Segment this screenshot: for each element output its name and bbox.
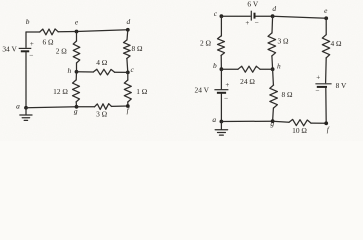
wire 12-ohm to node g (75, 102, 77, 107)
resistor 10 ohm (horizontal) (289, 119, 311, 125)
resistor 4 ohm (vertical, right circuit) (322, 35, 329, 58)
resistor 8 ohm (vertical, left circuit) (124, 40, 131, 59)
resistor 2 ohm (vertical, left circuit) (73, 41, 80, 63)
wire 1-ohm to node f (127, 102, 129, 106)
wire 8-ohm to node g (right circuit) (272, 108, 275, 121)
node g (right circuit) (271, 119, 275, 123)
wire d to 3-ohm (right circuit) (271, 16, 274, 33)
node f (126, 104, 130, 108)
wire g to 3-ohm (77, 106, 95, 108)
resistor 1 ohm (vertical) (124, 80, 131, 102)
node g (75, 105, 79, 109)
wire d to 8-ohm (126, 30, 129, 40)
wire node e to node d (top rail) (77, 30, 128, 32)
resistor 3 ohm (vertical, right circuit) (268, 33, 276, 56)
resistor 12 ohm (vertical) (73, 80, 80, 102)
wire c to 2-ohm (right circuit) (220, 16, 222, 36)
resistor 6 ohm (horizontal, top-left) (40, 29, 59, 35)
wire b down to 34V battery (25, 32, 27, 47)
node h (75, 70, 79, 74)
battery 34 V short plate (-) (21, 50, 29, 52)
wire g to 10-ohm (273, 121, 289, 122)
battery 24 V short plate (217, 92, 226, 94)
resistor 8 ohm (vertical, right circuit) (270, 85, 278, 108)
node f (right circuit) (324, 121, 328, 125)
wire e to 2-ohm (76, 32, 78, 42)
battery 8 V short plate (317, 86, 327, 88)
wire 34V battery to node a (25, 52, 27, 108)
wire 4-ohm to node c (115, 71, 128, 73)
wire 6V battery to node d (256, 15, 273, 17)
battery 6 V long plate (250, 11, 252, 21)
wire 8V battery to node f (right circuit) (325, 88, 327, 123)
wire 6-ohm to node e (58, 31, 76, 33)
node a (24, 106, 28, 110)
wire 10-ohm to node f (right circuit) (311, 122, 326, 124)
resistor 4 ohm (horizontal, left circuit) (93, 69, 114, 75)
wire h to 8-ohm (right circuit) (272, 69, 275, 85)
wire h to 4-ohm (77, 71, 94, 73)
resistor 2 ohm (vertical, right circuit) (218, 36, 225, 56)
ground symbol (left circuit) (20, 108, 32, 121)
wire 3-ohm to node f (112, 105, 128, 107)
wire a to node g (26, 107, 77, 108)
wire c to 1-ohm (127, 72, 129, 80)
wire a to g (right circuit) (221, 120, 272, 122)
node e (right circuit) (324, 16, 328, 20)
node c (126, 71, 130, 75)
battery 34 V long plate (+) (19, 47, 32, 49)
battery 24 V long plate (214, 89, 228, 91)
wire e to 4-ohm (right circuit) (325, 18, 327, 35)
resistor 3 ohm (horizontal, left circuit) (95, 104, 112, 110)
battery 6 V short plate (254, 13, 256, 19)
wire 2-ohm to node h (76, 63, 78, 72)
node h (right circuit) (271, 67, 275, 71)
wire b down to 24V battery (220, 69, 222, 89)
wire h to 12-ohm (75, 72, 77, 80)
wire b to 24-ohm (221, 68, 238, 70)
battery 8 V long plate (315, 83, 331, 85)
wire c to 6V battery (221, 15, 250, 17)
wire node b to 6-ohm resistor (26, 31, 40, 33)
node d (126, 28, 130, 32)
node b (right circuit) (220, 67, 224, 71)
wire 8-ohm to node c (126, 59, 129, 73)
node d (right circuit) (271, 14, 275, 18)
wire 2-ohm to node b (right circuit) (220, 56, 222, 70)
ground symbol (right circuit) (215, 122, 227, 136)
wire 4-ohm to 8V battery (325, 58, 328, 83)
wire 24-ohm to node h (260, 68, 273, 70)
wire 3-ohm to node h (right circuit) (271, 56, 274, 69)
resistor 24 ohm (horizontal) (238, 66, 260, 72)
wire 24V battery to node a (right circuit) (220, 94, 222, 122)
node a (right circuit) (220, 120, 224, 124)
paper noise overlay (0, 0, 1, 1)
wire d to e (top rail, right circuit) (273, 16, 327, 18)
node c (right circuit) (220, 14, 224, 18)
node e (75, 30, 79, 34)
